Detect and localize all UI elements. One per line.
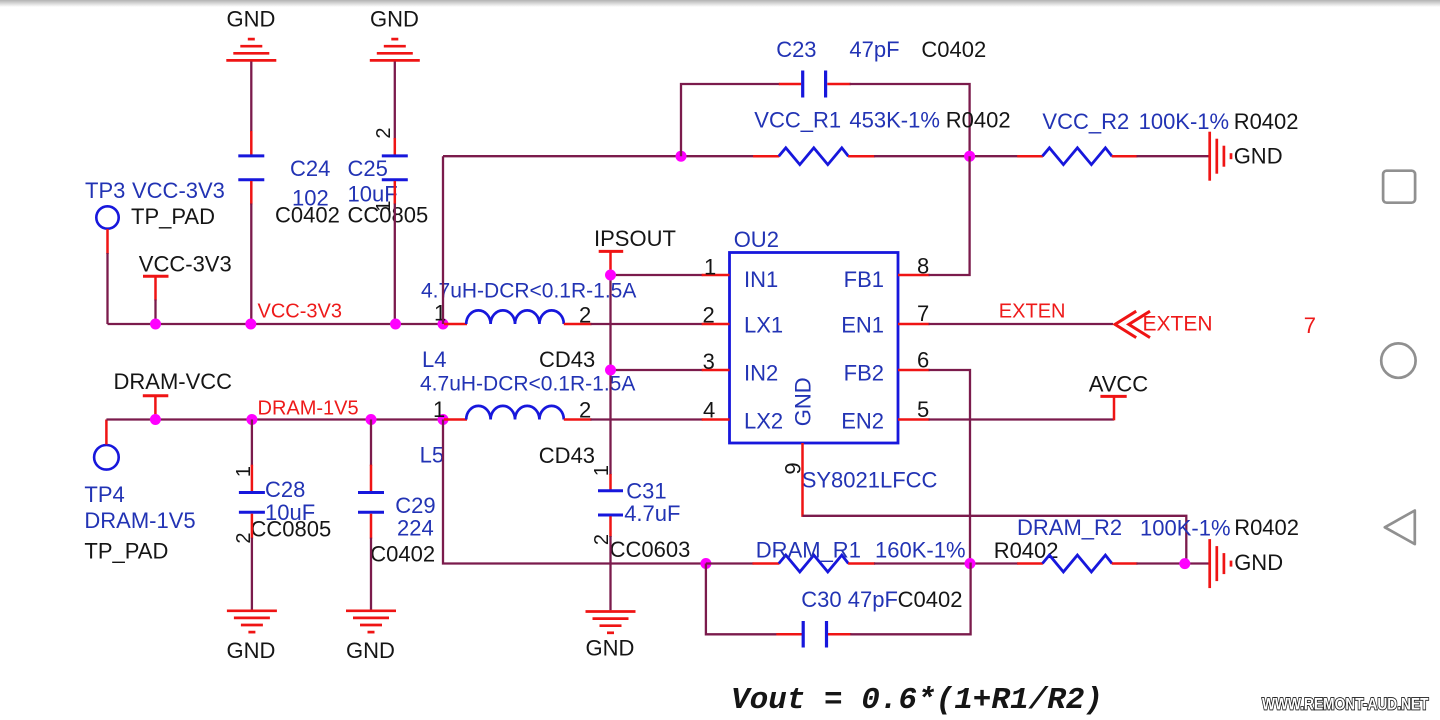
pin 4 LX2 [702, 398, 783, 434]
svg-text:EXTEN: EXTEN [1143, 313, 1213, 336]
svg-text:9: 9 [781, 462, 806, 474]
node junction VCC-3V3 stem [150, 319, 161, 330]
svg-text:C31: C31 [626, 479, 666, 504]
capacitor C23 [776, 37, 986, 98]
wire TP3 to bus [106, 229, 109, 324]
wire C28 upper [251, 420, 253, 492]
capacitor C31 [598, 479, 690, 563]
resistor DRAM_R2 [1017, 515, 1299, 572]
node junction L5 input [438, 414, 449, 425]
wire FB2 to divider [929, 370, 970, 564]
svg-text:453K-1%: 453K-1% [849, 108, 940, 133]
pin 9 GND pad stub [781, 443, 806, 517]
svg-text:VCC-3V3: VCC-3V3 [132, 178, 225, 203]
wire L5 to pin4 [591, 418, 703, 420]
wire VCC_R1 row left [443, 155, 754, 157]
svg-text:160K-1%: 160K-1% [875, 538, 966, 563]
svg-text:VCC-3V3: VCC-3V3 [139, 252, 232, 277]
svg-text:1: 1 [433, 397, 445, 422]
wire VCC_R1 to VCC_R2 [874, 155, 1018, 157]
nav button recents square [1383, 171, 1415, 203]
svg-text:VCC_R2: VCC_R2 [1042, 109, 1129, 134]
node junction L4 input [438, 319, 449, 330]
op-amp U1 OU2 SY8021LFCC IC box [730, 227, 938, 493]
svg-text:C0402: C0402 [275, 203, 340, 228]
svg-text:DRAM-1V5: DRAM-1V5 [258, 398, 359, 420]
wire C29 lower [370, 514, 373, 610]
svg-text:EXTEN: EXTEN [999, 301, 1066, 323]
wire C31 lower [609, 516, 612, 610]
wire DRAM_R2 to ground [1137, 562, 1209, 564]
svg-text:4.7uH-DCR<0.1R-1.5A: 4.7uH-DCR<0.1R-1.5A [421, 280, 636, 303]
wire C25 lower [394, 181, 397, 324]
wire C24 upper [250, 62, 252, 155]
node junction C29 bus [366, 414, 377, 425]
svg-text:TP_PAD: TP_PAD [131, 204, 215, 229]
svg-text:224: 224 [397, 516, 434, 541]
svg-text:2: 2 [703, 303, 715, 328]
node junction FB1 divider [964, 151, 975, 162]
svg-text:L5: L5 [420, 443, 444, 468]
svg-text:C0402: C0402 [921, 37, 986, 62]
testpoint TP4 TP_PAD [84, 445, 195, 564]
wire C24 lower [250, 181, 253, 324]
ground GND under C28 [226, 611, 276, 663]
svg-text:DRAM-VCC: DRAM-VCC [114, 369, 233, 394]
svg-text:DRAM_R2: DRAM_R2 [1017, 515, 1122, 540]
wire FB1 vertical to pin 8 [929, 156, 970, 275]
capacitor C25 [348, 156, 429, 228]
wire L4 to pin2 [591, 323, 703, 325]
svg-text:C23: C23 [776, 37, 816, 62]
svg-text:6: 6 [917, 348, 929, 373]
svg-text:SY8021LFCC: SY8021LFCC [802, 468, 938, 493]
power symbol IPSOUT [594, 226, 676, 275]
svg-text:2: 2 [579, 303, 591, 328]
pin 3 IN2 [702, 349, 779, 385]
svg-text:1: 1 [233, 466, 255, 477]
wire C23 branch left [681, 84, 780, 156]
svg-text:IN1: IN1 [744, 267, 778, 292]
wire IPSOUT vertical [609, 275, 611, 475]
node junction DRAM_R1 left [700, 558, 711, 569]
svg-text:GND: GND [226, 638, 275, 663]
svg-text:L4: L4 [422, 347, 446, 372]
wire pin1 IN1 [611, 274, 703, 276]
svg-text:DRAM-1V5: DRAM-1V5 [84, 508, 195, 533]
node junction FB2 divider [965, 558, 976, 569]
svg-text:TP_PAD: TP_PAD [84, 539, 168, 564]
node junction C28 bus [246, 414, 257, 425]
wire DRAM_R1 to DRAM_R2 [874, 562, 1018, 564]
wire pin 9 to ground [803, 516, 1187, 564]
svg-text:R0402: R0402 [1234, 109, 1299, 134]
svg-text:C24: C24 [290, 156, 330, 181]
svg-text:4.7uF: 4.7uF [624, 501, 680, 526]
pin 5 EN2 [841, 397, 929, 433]
svg-text:8: 8 [917, 254, 929, 279]
svg-text:Vout = 0.6*(1+R1/R2): Vout = 0.6*(1+R1/R2) [731, 683, 1103, 718]
wire C28 lower [251, 514, 254, 610]
resistor VCC_R1 [753, 108, 1011, 165]
svg-text:GND: GND [370, 7, 419, 32]
ground GND top-left 1 [226, 7, 276, 61]
svg-text:FB2: FB2 [844, 360, 884, 385]
svg-text:1: 1 [434, 301, 446, 326]
svg-text:R0402: R0402 [1234, 515, 1299, 540]
svg-text:GND: GND [586, 636, 635, 661]
svg-text:CD43: CD43 [539, 443, 595, 468]
pin 6 FB2 [844, 348, 930, 386]
wire EXTEN from pin 7 [929, 323, 1113, 325]
wire DRAM-VCC stem [154, 417, 156, 420]
svg-text:LX2: LX2 [744, 408, 783, 433]
power symbol AVCC [1089, 372, 1149, 421]
wire C31 upper [609, 474, 612, 490]
wire C30 loop right [850, 563, 970, 635]
svg-text:4.7uH-DCR<0.1R-1.5A: 4.7uH-DCR<0.1R-1.5A [420, 373, 635, 396]
wire C30 loop left [706, 564, 777, 635]
svg-text:VCC-3V3: VCC-3V3 [258, 301, 342, 323]
testpoint TP3 TP_PAD [85, 178, 225, 229]
svg-text:CC0805: CC0805 [251, 517, 332, 542]
inductor L5 [420, 373, 636, 469]
svg-text:TP4: TP4 [84, 482, 124, 507]
power symbol VCC-3V3 [139, 252, 232, 301]
svg-text:R0402: R0402 [946, 108, 1011, 133]
svg-text:100K-1%: 100K-1% [1140, 516, 1231, 541]
svg-text:IPSOUT: IPSOUT [594, 226, 676, 251]
power symbol DRAM-VCC [114, 369, 233, 418]
resistor VCC_R2 [1017, 109, 1298, 165]
svg-text:C25: C25 [348, 156, 388, 181]
svg-text:1: 1 [704, 255, 716, 280]
nav button back triangle [1385, 511, 1415, 545]
ground GND right of VCC_R2 [1210, 132, 1283, 181]
wire VCC-3V3 bus [108, 323, 444, 325]
capacitor C29 [358, 493, 436, 567]
wire VCC feedback branch vertical [442, 156, 444, 324]
resistor DRAM_R1 [706, 538, 1059, 572]
wire TP4 to bus [105, 420, 108, 445]
offsheet connector EXTEN [1115, 311, 1213, 337]
svg-text:EN2: EN2 [841, 408, 884, 433]
wire VCC-3V3 stem [154, 300, 156, 325]
capacitor C24 [238, 156, 340, 228]
ground GND under C29 [346, 611, 396, 663]
svg-text:DRAM_R1: DRAM_R1 [756, 538, 861, 563]
svg-text:IN2: IN2 [744, 360, 778, 385]
svg-text:OU2: OU2 [734, 227, 779, 252]
pin 2 LX1 [702, 303, 783, 338]
svg-text:C0402: C0402 [898, 587, 963, 612]
pin 1 IN1 [702, 255, 779, 293]
ground GND under C31 [586, 612, 636, 661]
ground GND top-left 2 [370, 7, 420, 61]
svg-text:2: 2 [373, 127, 395, 138]
svg-text:GND: GND [791, 377, 816, 426]
svg-text:C29: C29 [395, 493, 435, 518]
svg-text:C28: C28 [265, 477, 305, 502]
svg-text:3: 3 [703, 349, 715, 374]
svg-text:GND: GND [346, 638, 395, 663]
wire VCC_R2 to ground [1137, 155, 1209, 157]
svg-text:WWW.REMONT-AUD.NET: WWW.REMONT-AUD.NET [1262, 695, 1429, 714]
capacitor C28 [239, 477, 331, 542]
svg-text:TP3: TP3 [85, 178, 125, 203]
svg-text:FB1: FB1 [844, 267, 884, 292]
svg-text:1: 1 [373, 200, 395, 211]
svg-text:GND: GND [227, 7, 276, 32]
ground GND right of DRAM_R2 [1210, 539, 1283, 588]
node junction pin9 ground [1179, 558, 1190, 569]
node junction DRAM-VCC stem [150, 414, 161, 425]
wire C25 upper [394, 62, 396, 155]
node junction C24 bus [245, 319, 256, 330]
node junction IPSOUT pin1 [605, 270, 616, 281]
svg-text:C0402: C0402 [370, 542, 435, 567]
svg-text:R0402: R0402 [994, 538, 1059, 563]
svg-text:C30 47pF: C30 47pF [801, 587, 898, 612]
wire C23 branch right [850, 84, 970, 156]
svg-text:7: 7 [917, 301, 929, 326]
svg-text:47pF: 47pF [849, 37, 899, 62]
capacitor C30 [776, 587, 962, 648]
svg-text:GND: GND [1234, 550, 1283, 575]
node junction C23 branch [676, 151, 687, 162]
svg-text:VCC_R1: VCC_R1 [754, 108, 841, 133]
svg-text:7: 7 [1304, 313, 1316, 338]
wire C29 upper [370, 420, 372, 492]
pin 8 FB1 [844, 254, 930, 293]
svg-text:LX1: LX1 [744, 313, 783, 338]
svg-text:100K-1%: 100K-1% [1139, 109, 1230, 134]
wire DRAM-1V5 bus [106, 418, 443, 420]
inductor L4 [421, 280, 636, 373]
svg-text:GND: GND [1234, 144, 1283, 169]
wire pin3 IN2 [611, 369, 703, 371]
svg-text:AVCC: AVCC [1089, 372, 1149, 397]
svg-text:EN1: EN1 [841, 313, 884, 338]
svg-text:5: 5 [917, 397, 929, 422]
wire DRAM feedback branch [443, 420, 707, 564]
svg-text:2: 2 [579, 398, 591, 423]
node junction IPSOUT pin3 [605, 365, 616, 376]
svg-text:1: 1 [591, 465, 613, 476]
svg-text:CD43: CD43 [539, 347, 595, 372]
node junction C25 bus [390, 319, 401, 330]
nav button home circle [1381, 343, 1415, 377]
svg-text:CC0603: CC0603 [610, 537, 691, 562]
pin 7 EN1 [841, 301, 929, 338]
wire EN2 to AVCC [929, 418, 1114, 420]
svg-text:4: 4 [703, 398, 715, 423]
